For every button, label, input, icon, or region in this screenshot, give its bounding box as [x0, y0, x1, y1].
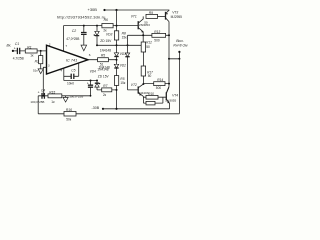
svg-text:R2: R2 — [35, 59, 39, 63]
svg-text:+: + — [38, 91, 40, 95]
node R6 right — [116, 25, 118, 27]
wire pin3 branch — [43, 67, 46, 96]
resistor R15b — [143, 97, 163, 105]
svg-text:Вх.: Вх. — [7, 44, 12, 48]
svg-text:100,0*25В: 100,0*25В — [69, 95, 83, 99]
resistor R12 — [141, 41, 152, 52]
svg-text:http://2937934592.3dn.ru: http://2937934592.3dn.ru — [57, 14, 106, 19]
wire center bias column — [116, 10, 118, 109]
node R1-R2 — [40, 50, 42, 52]
svg-text:R1: R1 — [27, 45, 31, 49]
svg-text:50: 50 — [144, 20, 148, 24]
node pin3-C4 — [42, 95, 44, 97]
ground under C2 — [81, 45, 87, 51]
svg-text:VD4: VD4 — [90, 70, 96, 74]
node R13 junctions — [142, 34, 144, 36]
node input terminal — [7, 44, 14, 53]
svg-text:VD1: VD1 — [120, 52, 126, 56]
wire R17 to VT2 collector node — [142, 76, 144, 84]
node +30V terminal — [88, 7, 106, 12]
wire output down to feedback — [178, 59, 180, 114]
svg-text:R13: R13 — [154, 30, 160, 34]
svg-text:C4: C4 — [41, 88, 45, 92]
node rail-column — [115, 108, 117, 110]
svg-text:VD2: VD2 — [120, 64, 126, 68]
wire op-amp output — [88, 59, 117, 61]
op-amp U1 IC 741 — [47, 43, 91, 74]
capacitor C3 — [69, 81, 93, 99]
zener VD3 15V — [94, 26, 113, 46]
wire output jog — [169, 52, 179, 59]
node R14 left — [142, 83, 144, 85]
svg-text:6: 6 — [89, 53, 91, 57]
svg-text:500: 500 — [156, 86, 162, 90]
svg-text:R15: R15 — [49, 90, 55, 94]
resistor R15 — [48, 90, 62, 104]
svg-text:50: 50 — [148, 74, 152, 78]
resistor R13 — [128, 30, 170, 43]
svg-text:4,7/25В: 4,7/25В — [13, 57, 24, 61]
svg-text:VD3: VD3 — [106, 32, 113, 36]
node bus-VD1 — [127, 44, 129, 46]
svg-text:50к: 50к — [66, 118, 72, 122]
svg-text:4: 4 — [60, 68, 62, 72]
capacitor C2 — [66, 26, 86, 45]
svg-text:Rн=8 Ом: Rн=8 Ом — [173, 44, 188, 48]
resistor R7 — [97, 84, 117, 97]
svg-text:500: 500 — [154, 38, 160, 42]
transistor VT1 2N3053 — [131, 14, 150, 42]
node -30V terminal — [92, 106, 105, 110]
svg-text:IC 741: IC 741 — [66, 59, 77, 63]
node zener VD4 tap — [96, 80, 98, 82]
wire VT2 emitter down — [142, 96, 144, 103]
svg-text:1N4148: 1N4148 — [99, 66, 110, 70]
diode VD2 — [114, 52, 126, 57]
svg-text:R16: R16 — [66, 108, 72, 112]
node zener tap — [96, 25, 98, 27]
svg-text:15к: 15к — [120, 81, 126, 85]
svg-text:50: 50 — [146, 45, 150, 49]
wire input — [13, 50, 47, 52]
node C2 tap — [83, 25, 85, 27]
node output-column — [116, 59, 118, 61]
resistor R2 — [33, 51, 43, 72]
wire feedback line — [38, 113, 179, 115]
resistor R6 — [102, 18, 113, 32]
wire pin4 riser — [63, 68, 65, 81]
node rail junction — [115, 9, 117, 11]
svg-text:VT4: VT4 — [172, 93, 178, 97]
node bus-column — [116, 44, 118, 46]
resistor R1 — [25, 45, 37, 57]
svg-text:R14: R14 — [157, 78, 163, 82]
node R7 right — [116, 89, 118, 91]
resistor R9 — [146, 11, 158, 19]
wire R15 to ground and C3 — [62, 96, 91, 98]
svg-text:1N4148: 1N4148 — [100, 48, 111, 52]
wire output bus — [166, 22, 169, 93]
transistor VT4 2N3055 — [165, 87, 178, 109]
wire bias bus mid — [97, 44, 141, 46]
svg-text:R5: R5 — [101, 53, 105, 57]
svg-text:R10: R10 — [148, 92, 154, 96]
ground under R2 — [38, 69, 43, 74]
wire R9 to VT3 base — [158, 15, 166, 17]
wire -15V node — [64, 80, 97, 82]
svg-text:51к: 51к — [33, 68, 38, 72]
ground near R15 — [63, 97, 68, 102]
svg-text:ZD 15V: ZD 15V — [100, 39, 112, 43]
wire R12 to R17 — [142, 52, 144, 66]
transistor VT2 2N4403 — [128, 83, 149, 96]
resistor R5 — [98, 48, 112, 69]
node jog right — [178, 58, 180, 60]
svg-text:15к: 15к — [122, 36, 128, 40]
capacitor C4 — [30, 88, 48, 104]
resistor R16 — [64, 108, 76, 122]
svg-text:10н0: 10н0 — [67, 82, 74, 86]
wire +30V rail — [105, 9, 170, 11]
svg-text:C2: C2 — [72, 29, 76, 33]
resistor R11 vertical — [114, 76, 126, 86]
node output terminal — [173, 39, 188, 53]
diode VD3b — [114, 64, 126, 68]
transistor VT3 MJ2955 — [166, 10, 183, 22]
diode VD1 — [125, 53, 129, 57]
svg-text:R7: R7 — [103, 84, 107, 88]
resistor R10 — [143, 92, 166, 99]
node C3 tap — [90, 80, 92, 82]
svg-text:VT1: VT1 — [131, 14, 137, 18]
svg-text:-30В: -30В — [92, 106, 100, 110]
wire feedback riser — [37, 96, 39, 114]
node bus-zener — [96, 44, 98, 46]
capacitor C1 — [13, 42, 24, 61]
resistor R17 — [141, 66, 153, 78]
svg-text:100,0*25В: 100,0*25В — [30, 100, 44, 104]
wire supply bus to pin7 — [64, 26, 139, 51]
svg-text:C5: C5 — [71, 69, 75, 73]
wire VD1 column — [127, 35, 129, 90]
svg-text:+: + — [14, 46, 16, 50]
svg-text:VT2: VT2 — [131, 83, 137, 87]
svg-text:+: + — [87, 82, 89, 86]
svg-text:R9: R9 — [149, 11, 153, 15]
capacitor C5 — [64, 63, 79, 86]
svg-text:MJ2955: MJ2955 — [171, 15, 183, 19]
svg-text:Вых.: Вых. — [176, 39, 184, 43]
resistor R14 — [143, 78, 169, 90]
node jog left — [168, 58, 170, 60]
node R14 right — [168, 83, 170, 85]
svg-text:47,0*25В: 47,0*25В — [66, 37, 79, 41]
zener VD4 — [90, 68, 110, 90]
svg-text:3: 3 — [48, 63, 50, 67]
svg-text:2: 2 — [49, 43, 51, 47]
svg-text:7: 7 — [65, 44, 67, 48]
svg-text:2N3055: 2N3055 — [165, 98, 176, 102]
resistor R8 — [114, 31, 127, 40]
node C3 bottom — [90, 95, 92, 97]
wire -30V rail — [103, 108, 170, 110]
svg-text:2N4403: 2N4403 — [138, 91, 149, 95]
svg-text:ZD 15V: ZD 15V — [98, 74, 110, 78]
svg-text:+30В: +30В — [88, 7, 98, 12]
